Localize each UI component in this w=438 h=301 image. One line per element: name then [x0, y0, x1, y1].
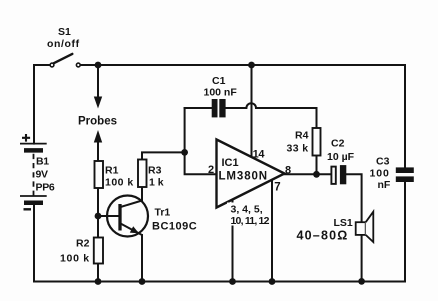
- svg-text:nF: nF: [378, 179, 391, 191]
- svg-text:40–80Ω: 40–80Ω: [297, 229, 349, 243]
- svg-text:Probes: Probes: [78, 116, 117, 128]
- svg-text:R2: R2: [76, 238, 90, 250]
- svg-text:IC1: IC1: [222, 157, 239, 169]
- svg-text:S1: S1: [58, 26, 71, 38]
- svg-text:Tr1: Tr1: [155, 207, 171, 219]
- svg-text:C3: C3: [376, 156, 390, 168]
- svg-text:100 k: 100 k: [105, 177, 134, 189]
- svg-text:100 k: 100 k: [60, 253, 90, 265]
- svg-text:LS1: LS1: [334, 217, 353, 229]
- svg-text:1 k: 1 k: [149, 177, 164, 189]
- svg-text:C2: C2: [331, 138, 345, 150]
- svg-text:100 nF: 100 nF: [204, 87, 238, 99]
- svg-text:3, 4, 5,: 3, 4, 5,: [231, 204, 263, 216]
- svg-text:33 k: 33 k: [287, 143, 309, 155]
- svg-text:BC109C: BC109C: [152, 221, 197, 233]
- svg-text:10 µF: 10 µF: [327, 151, 355, 163]
- svg-text:C1: C1: [212, 75, 226, 87]
- svg-text:14: 14: [253, 149, 266, 161]
- svg-text:LM380N: LM380N: [219, 171, 269, 183]
- svg-text:7: 7: [274, 182, 280, 194]
- svg-text:on/off: on/off: [47, 38, 80, 50]
- svg-text:100: 100: [370, 168, 390, 180]
- svg-text:2: 2: [208, 164, 214, 176]
- svg-text:PP6: PP6: [36, 181, 55, 193]
- svg-text:8: 8: [285, 165, 291, 177]
- svg-text:9V: 9V: [36, 168, 49, 180]
- svg-text:R1: R1: [105, 165, 119, 177]
- svg-text:R4: R4: [295, 130, 309, 142]
- svg-text:B1: B1: [36, 156, 49, 168]
- svg-text:R3: R3: [148, 165, 162, 177]
- svg-text:10, 11, 12: 10, 11, 12: [231, 215, 270, 227]
